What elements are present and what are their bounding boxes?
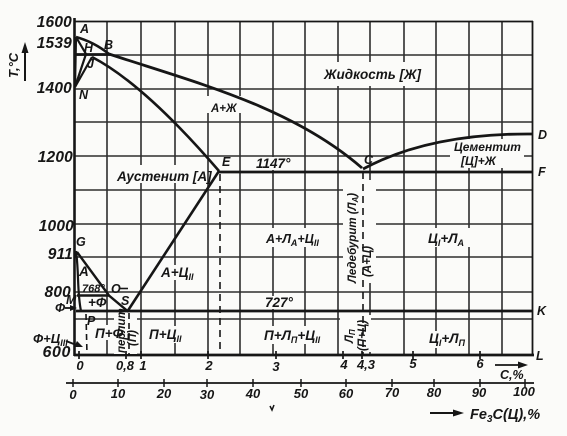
svg-text:1147°: 1147° (256, 156, 291, 171)
svg-text:2: 2 (204, 358, 213, 373)
stray mark (270, 405, 274, 410)
svg-text:4: 4 (339, 357, 348, 372)
rotated ledeburite labels (116, 193, 374, 353)
svg-text:T,°C: T,°C (6, 52, 21, 78)
T axis label (6, 42, 29, 81)
carbon scale labels (76, 356, 484, 374)
svg-text:20: 20 (156, 386, 172, 401)
svg-text:[Ц]+Ж: [Ц]+Ж (460, 154, 497, 168)
svg-text:E: E (222, 155, 231, 169)
svg-text:N: N (79, 88, 89, 102)
svg-text:Жидкость [Ж]: Жидкость [Ж] (323, 67, 421, 82)
svg-text:100: 100 (513, 384, 535, 399)
svg-text:(П): (П) (127, 330, 139, 346)
eutectic line ECF 1147 (219, 171, 533, 174)
svg-text:(А+Ц): (А+Ц) (362, 246, 374, 277)
svg-text:O: O (111, 282, 121, 296)
svg-text:1539: 1539 (37, 35, 72, 52)
line NJ (75, 57, 92, 87)
svg-text:90: 90 (472, 385, 487, 400)
line AN along axis (75, 37, 76, 87)
dashed line below P (86, 314, 87, 355)
dashed line below E (2.14%) (219, 174, 221, 355)
svg-text:S: S (121, 294, 130, 308)
svg-text:Ледебурит (ЛА): Ледебурит (ЛА) (347, 193, 360, 284)
svg-text:Ф: Ф (55, 300, 66, 315)
svg-text:+Ф: +Ф (88, 295, 107, 310)
svg-text:M: M (66, 293, 77, 307)
svg-text:А+Ж: А+Ж (210, 103, 238, 115)
svg-text:911: 911 (48, 246, 73, 263)
svg-text:3: 3 (272, 359, 280, 374)
dash after O label (119, 288, 128, 290)
svg-text:0,8: 0,8 (116, 358, 135, 373)
svg-text:0: 0 (76, 358, 84, 373)
liquidus BC (109, 54, 362, 168)
Curie line MO 768 (77, 294, 109, 297)
svg-text:А: А (78, 264, 89, 279)
svg-text:30: 30 (200, 387, 215, 402)
svg-text:Аустенит [А]: Аустенит [А] (116, 169, 212, 184)
dashed line at 4.3% below C (362, 172, 364, 355)
svg-text:60: 60 (339, 386, 354, 401)
solidus JE (92, 57, 219, 171)
svg-text:F: F (538, 165, 546, 179)
svg-text:4,3: 4,3 (356, 357, 376, 372)
line GS (A3) (77, 252, 128, 312)
Fe3C axis title with arrow (430, 407, 540, 425)
svg-text:С,%: С,% (500, 368, 524, 382)
svg-text:H: H (84, 41, 94, 55)
grid horizontal lines (74, 55, 533, 319)
svg-text:40: 40 (245, 386, 261, 401)
svg-text:B: B (104, 38, 113, 52)
svg-text:50: 50 (294, 386, 309, 401)
svg-text:768°: 768° (82, 283, 105, 295)
eutectoid line PSK 727 (76, 310, 533, 313)
svg-text:80: 80 (427, 385, 442, 400)
svg-text:A: A (79, 22, 89, 36)
svg-text:1000: 1000 (39, 218, 74, 235)
svg-text:5: 5 (409, 356, 417, 371)
svg-text:10: 10 (111, 386, 126, 401)
Fe3C scale axis (66, 382, 534, 384)
line ES (127, 171, 219, 312)
liquidus CD (363, 134, 533, 169)
peritectic line HB 1493 (74, 53, 111, 56)
svg-text:1600: 1600 (37, 14, 72, 31)
svg-text:Fe3C(Ц),%: Fe3C(Ц),% (470, 407, 540, 425)
svg-text:C: C (364, 153, 374, 167)
grid vertical lines (107, 21, 502, 355)
chart frame (74, 18, 534, 356)
ferrite pointer (55, 300, 77, 315)
svg-text:Цементит: Цементит (454, 140, 521, 154)
liquidus AB (76, 37, 109, 54)
svg-text:70: 70 (385, 385, 400, 400)
svg-text:(П+Ц): (П+Ц) (357, 320, 369, 351)
C percent label with arrow (495, 362, 528, 383)
Fe3C scale labels (69, 384, 535, 402)
temperature labels (37, 14, 74, 361)
svg-text:727°: 727° (265, 295, 294, 310)
svg-text:1: 1 (139, 358, 146, 373)
svg-text:D: D (538, 128, 547, 142)
ferrite + cementite III pointer (33, 331, 83, 348)
svg-text:K: K (537, 304, 547, 318)
dashed line below S (0.8%) (128, 313, 130, 355)
line NH (75, 54, 86, 87)
line GP (76, 251, 81, 311)
svg-text:J: J (87, 57, 95, 71)
svg-text:1200: 1200 (38, 149, 73, 166)
svg-text:G: G (76, 235, 86, 249)
svg-text:L: L (536, 349, 544, 363)
label masks (white behind texts) (92, 62, 524, 354)
solidus AH (76, 37, 86, 54)
svg-text:1400: 1400 (37, 80, 72, 97)
svg-text:0: 0 (69, 387, 77, 402)
svg-text:6: 6 (476, 356, 484, 371)
carbon scale ticks (79, 351, 480, 359)
